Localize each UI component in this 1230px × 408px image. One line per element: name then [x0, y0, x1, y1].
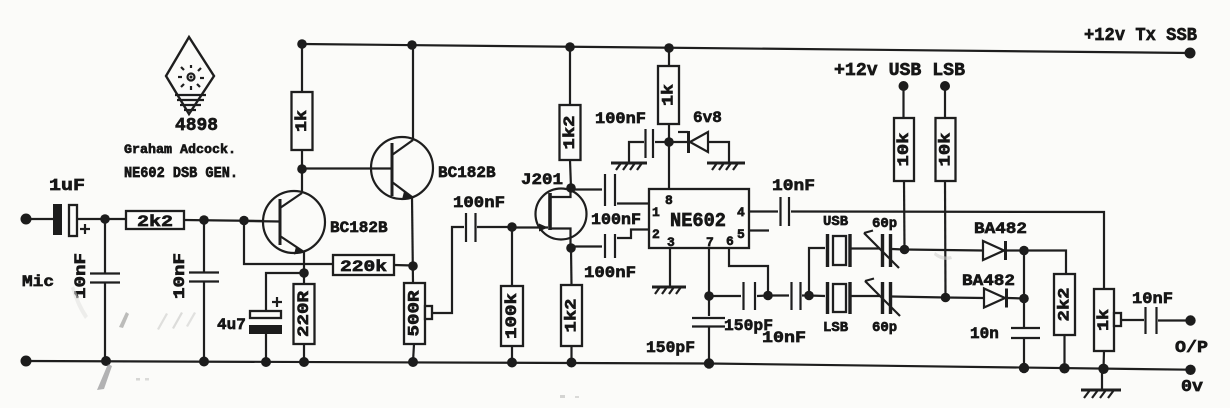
node crystal common: [804, 291, 814, 301]
node pin 7: [704, 291, 714, 301]
wire C3 branch: [203, 220, 205, 272]
terminal 0v right: [1185, 365, 1195, 375]
logo sparkle: [178, 65, 204, 90]
svg-text:10nF: 10nF: [762, 329, 806, 347]
capacitor C7 100nF source coupling: [605, 234, 615, 258]
junction C3 0v: [199, 357, 209, 367]
junction C10 0v: [704, 358, 714, 368]
diode D3 BA482: [984, 289, 1007, 308]
wire C2 to 0v: [104, 282, 106, 361]
wire cathode node to R11: [1024, 251, 1066, 275]
transistor Q1 BC182B: [263, 191, 325, 253]
capacitor C2 10nF: [90, 274, 120, 283]
svg-text:BA482: BA482: [962, 272, 1015, 290]
node after R1: [199, 215, 209, 225]
svg-text:10nF: 10nF: [171, 253, 189, 299]
junction top rail at zener 1k: [664, 43, 674, 53]
resistor R8 1k zener feed: [658, 66, 679, 124]
wire C11 to crystal node: [802, 294, 809, 296]
wire node to Q2 base: [302, 167, 392, 169]
wire 1k to zener node: [668, 124, 670, 142]
terminal +12v LSB: [940, 81, 950, 91]
node J201 drain: [566, 183, 576, 193]
capacitor C1 1uF electrolytic: [53, 204, 77, 236]
capacitor C11 10nF osc coupling: [792, 282, 801, 310]
resistor R1 2k2: [126, 211, 184, 231]
svg-text:220k: 220k: [340, 258, 387, 276]
svg-text:7: 7: [706, 235, 714, 250]
svg-text:100nF: 100nF: [591, 211, 641, 229]
capacitor C9 150pF feedback: [744, 282, 756, 310]
svg-text:10k: 10k: [937, 132, 955, 166]
svg-text:10nF: 10nF: [772, 177, 815, 195]
node Q1 collector / Q2 base: [297, 164, 307, 174]
svg-text:Mic: Mic: [22, 273, 54, 291]
svg-text:1k: 1k: [1095, 309, 1113, 331]
svg-text:2: 2: [652, 227, 660, 242]
svg-text:1k: 1k: [660, 84, 678, 106]
svg-text:1uF: 1uF: [49, 177, 85, 196]
wire 100k to 0v: [511, 346, 513, 363]
wire 1k to collector node: [301, 150, 303, 169]
wire mic input to C1: [26, 218, 53, 220]
arrow Q1 emitter: [294, 247, 304, 255]
diode D2 BA482: [983, 241, 1006, 260]
crystal X2 LSB: [828, 282, 851, 314]
svg-text:2k2: 2k2: [137, 213, 173, 231]
wire C14 to output terminal: [1158, 319, 1190, 321]
wire Q1 emitter down: [303, 252, 305, 284]
svg-text:O/P: O/P: [1175, 339, 1208, 358]
wire pin7 node to C9: [709, 295, 741, 297]
node Q2 emitter: [408, 261, 418, 271]
node osc right: [763, 291, 773, 301]
svg-text:10k: 10k: [895, 132, 913, 166]
terminal O/P: [1185, 315, 1195, 325]
logo base hatching: [175, 95, 206, 110]
junction top rail at 1k2: [565, 42, 575, 52]
wire crystal common riser: [809, 248, 825, 296]
wire C13 to pot 1k: [791, 212, 1104, 290]
arrow Q2 emitter: [402, 192, 412, 200]
svg-text:220R: 220R: [295, 291, 313, 337]
wire osc node to C11: [768, 294, 789, 296]
wire D2 to detect node: [1007, 249, 1024, 251]
wiper VR1: [425, 306, 432, 319]
node Q1 emitter: [299, 268, 309, 278]
svg-text:4: 4: [737, 205, 745, 220]
wire pin 3 to ground: [669, 248, 671, 286]
capacitor C10 150pF to ground: [692, 318, 725, 327]
capacitor C4 4u7 electrolytic: [249, 311, 282, 334]
svg-text:1: 1: [652, 205, 660, 220]
svg-text:0v: 0v: [1181, 378, 1203, 397]
terminal mic input: [21, 214, 32, 225]
svg-text:BC182B: BC182B: [438, 164, 496, 182]
wire wiper to C5: [432, 227, 464, 313]
svg-text:100nF: 100nF: [584, 264, 636, 282]
svg-text:1k2: 1k2: [563, 299, 581, 333]
wire C6 to pin1: [617, 202, 649, 204]
svg-text:4u7: 4u7: [217, 316, 246, 334]
svg-text:6: 6: [726, 234, 734, 249]
wire drain to C6: [571, 188, 602, 190]
resistor R10 10k LSB: [936, 118, 956, 181]
junction VR1 0v: [408, 357, 418, 367]
junction C2 0v: [101, 356, 111, 366]
svg-text:+12v Tx SSB: +12v Tx SSB: [1084, 26, 1197, 46]
svg-text:10nF: 10nF: [1132, 290, 1173, 308]
svg-text:150pF: 150pF: [646, 339, 695, 357]
svg-text:USB: USB: [823, 214, 849, 230]
svg-text:3: 3: [667, 235, 675, 250]
svg-text:2k2: 2k2: [1056, 288, 1074, 322]
resistor R11 2k2: [1054, 274, 1075, 335]
wire zener node to D1: [669, 141, 687, 143]
node USB select: [900, 245, 910, 255]
wire Q1 base lead: [244, 220, 280, 223]
wire Q2 emitter down: [412, 197, 413, 283]
wire source to C7: [571, 245, 602, 247]
wire Q1 base feedback drop: [244, 221, 333, 265]
wire C12 to 0v: [1023, 338, 1025, 368]
svg-text:8: 8: [665, 193, 673, 208]
wire Q2 collector to rail: [412, 45, 414, 140]
wire VR2 to 0v: [1102, 351, 1105, 369]
wire TC2 to LSB node: [892, 297, 946, 298]
top +12v supply rail: [302, 44, 1190, 53]
ground C8: [611, 163, 647, 170]
trimmer TC2 60p: [865, 279, 900, 317]
wire 220k to Q2 emitter node: [394, 264, 413, 267]
wire pin 4 to C13: [749, 210, 778, 212]
crystal X1 USB: [828, 234, 851, 267]
op IC U1 NE602: [649, 189, 749, 248]
wire C2 branch: [104, 219, 106, 273]
svg-text:10n: 10n: [970, 325, 999, 343]
resistor R5 100k: [501, 286, 523, 346]
wire LSB node to D3: [946, 296, 985, 299]
wire X1 to TC1: [851, 247, 880, 249]
capacitor C13 10nF output: [781, 197, 790, 226]
resistor R6 1k2 drain: [560, 105, 581, 160]
wire R9 to USB node: [903, 181, 906, 250]
svg-text:100nF: 100nF: [453, 194, 505, 212]
capacitor C5 100nF: [466, 213, 476, 242]
terminal 0v left: [21, 356, 32, 367]
resistor R9 10k USB: [894, 118, 914, 181]
bottom 0v rail: [26, 361, 1190, 370]
junction R11 0v: [1059, 363, 1069, 373]
wire 220R to 0v: [303, 344, 305, 362]
terminal +12v Tx SSB: [1185, 48, 1196, 59]
node Q1 base: [239, 216, 249, 226]
resistor R2 1k: [292, 92, 313, 150]
capacitor C3 10nF: [189, 273, 219, 282]
svg-text:60p: 60p: [872, 216, 897, 232]
node mic bias: [100, 214, 110, 224]
transistor Q2 BC182B: [371, 137, 433, 199]
svg-text:+12v USB LSB: +12v USB LSB: [834, 61, 965, 81]
wire C4 to 0v: [265, 334, 267, 362]
svg-text:1k2: 1k2: [561, 116, 579, 150]
node D2 cathode: [1019, 246, 1029, 256]
junction C12 0v: [1019, 363, 1029, 373]
zener D1 6v8: [678, 131, 708, 153]
node J201 gate: [507, 222, 517, 232]
potentiometer VR2 1k: [1094, 289, 1114, 351]
wire emitter to C4: [266, 273, 304, 311]
junction top rail at Q2 collector: [407, 40, 417, 50]
svg-text:J201: J201: [521, 171, 563, 189]
wire D3 to detect node: [1008, 297, 1024, 300]
wire TC1 to USB node: [892, 248, 904, 251]
svg-text:6v8: 6v8: [693, 109, 722, 127]
svg-text:BA482: BA482: [974, 220, 1027, 238]
wire 1k to top rail: [301, 44, 303, 92]
svg-text:5: 5: [737, 227, 745, 242]
potentiometer VR1 500R: [404, 283, 425, 344]
node LSB select: [941, 293, 951, 303]
ground output: [1081, 390, 1121, 398]
wire source to R7: [570, 248, 573, 285]
svg-text:100k: 100k: [503, 293, 521, 339]
logo diamond: [166, 37, 214, 114]
wire R11 to 0v: [1063, 335, 1065, 368]
wire crystal common to X2: [809, 294, 825, 297]
capacitor C8 100nF zener decoupling: [646, 129, 654, 158]
junction VR2 0v: [1098, 364, 1108, 374]
resistor R4 220k: [333, 255, 394, 276]
capacitor C14 10nF output: [1146, 307, 1157, 334]
svg-text:60p: 60p: [872, 320, 897, 336]
terminal +12v USB: [899, 81, 909, 91]
wire USB terminal to R9: [902, 86, 904, 118]
svg-text:NE602 DSB GEN.: NE602 DSB GEN.: [124, 166, 238, 182]
wire 100k to gate node: [511, 227, 513, 286]
node D3 cathode: [1019, 294, 1029, 304]
wire 1k2 to drain: [570, 160, 571, 188]
arrow J201 gate: [539, 224, 548, 232]
wire Q1 collector to R2: [301, 168, 303, 193]
svg-text:BC182B: BC182B: [330, 219, 388, 237]
svg-text:NE602: NE602: [670, 210, 726, 232]
resistor R3 220R: [294, 284, 315, 344]
wire R1 to Q1 base: [184, 220, 263, 221]
wiper VR2: [1114, 313, 1121, 326]
wire USB node to D2: [905, 250, 984, 251]
wire pin 5 stub: [749, 229, 769, 231]
junction R7 0v: [567, 358, 577, 368]
wire 0v to chassis ground: [1101, 369, 1103, 390]
resistor R7 1k2 source: [561, 285, 582, 346]
capacitor C12 10n: [1011, 328, 1040, 338]
wire cathode bus: [1023, 251, 1025, 328]
wire VR1 to 0v: [413, 344, 414, 362]
node zener regulator: [664, 137, 674, 147]
trimmer TC1 60p: [864, 231, 899, 269]
svg-text:1k: 1k: [293, 110, 311, 132]
wire X2 to TC2: [851, 295, 880, 297]
wire 1k2 to top rail: [569, 47, 571, 105]
wire R10 to LSB node: [944, 181, 947, 298]
junction 220R 0v: [299, 357, 309, 367]
plus sign C4: [272, 297, 282, 307]
wire pin 7 down: [708, 248, 710, 316]
plus sign C1: [80, 224, 90, 234]
wire VR2 wiper to C14: [1121, 319, 1144, 321]
wire C8 to ground: [629, 142, 644, 163]
wire LSB terminal to R10: [944, 86, 946, 118]
svg-text:100nF: 100nF: [595, 110, 646, 128]
junction 100k 0v: [507, 358, 517, 368]
JFET J201: [512, 188, 587, 248]
svg-text:LSB: LSB: [823, 320, 849, 336]
wire C8 to zener node: [655, 141, 669, 143]
junction top rail at 1k: [297, 39, 307, 49]
junction C4 0v: [261, 357, 271, 367]
wire C5 to gate node: [477, 226, 512, 228]
wire D1 anode to ground: [708, 142, 729, 163]
capacitor C6 100nF drain coupling: [605, 174, 615, 206]
wire C1 to R1: [77, 218, 126, 220]
svg-text:Graham Adcock.: Graham Adcock.: [124, 142, 236, 157]
ground D1: [707, 163, 745, 170]
wire R7 to 0v: [570, 346, 572, 363]
wire C9 to osc node: [757, 294, 768, 297]
svg-text:4898: 4898: [175, 116, 218, 136]
wire zener node to pin 8: [668, 142, 670, 189]
wire C10 to 0v: [708, 326, 710, 364]
wire 1k to top rail: [668, 48, 670, 66]
node J201 source: [566, 243, 576, 253]
wire pin 6 to osc node: [729, 248, 768, 296]
svg-text:500R: 500R: [406, 290, 424, 336]
ground pin 3: [652, 287, 686, 294]
wire C7 to pin2: [617, 230, 649, 239]
wire C3 to 0v: [203, 281, 205, 362]
